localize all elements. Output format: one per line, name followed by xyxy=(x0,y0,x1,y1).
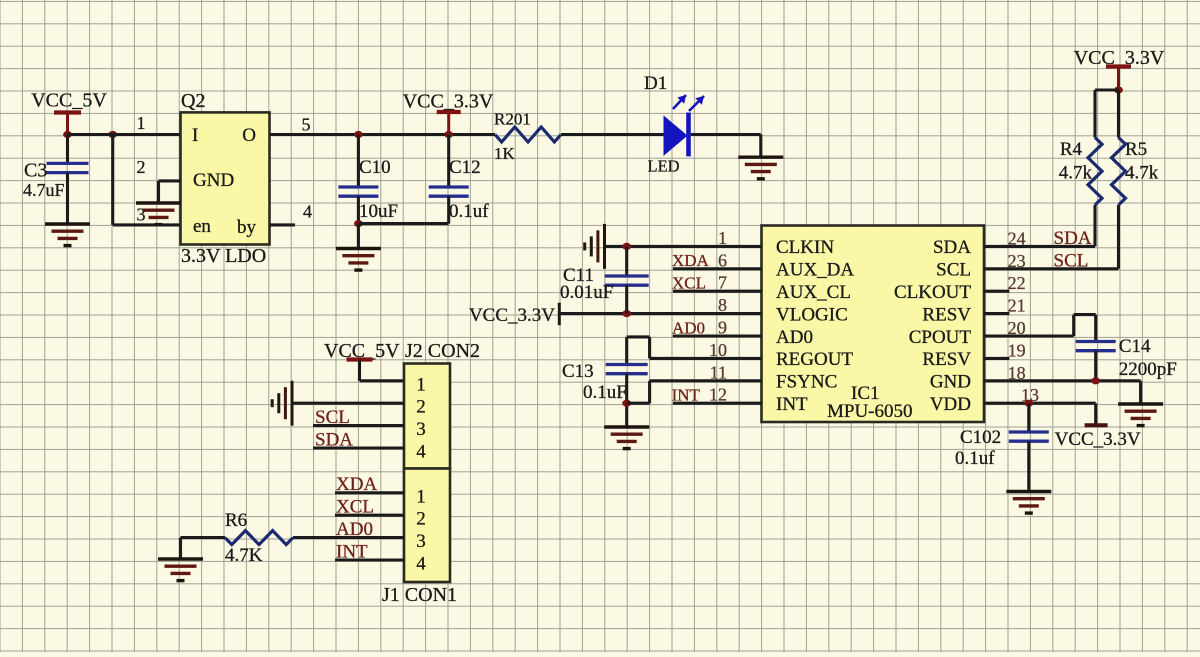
svg-text:22: 22 xyxy=(1008,273,1026,293)
svg-text:RESV: RESV xyxy=(922,304,971,325)
svg-text:J2 CON2: J2 CON2 xyxy=(405,340,480,362)
svg-text:INT: INT xyxy=(336,542,368,563)
svg-text:21: 21 xyxy=(1008,296,1026,316)
svg-text:4.7K: 4.7K xyxy=(225,545,263,566)
svg-text:4: 4 xyxy=(303,202,312,222)
svg-text:Q2: Q2 xyxy=(181,90,205,112)
svg-text:3: 3 xyxy=(416,419,426,440)
svg-text:CPOUT: CPOUT xyxy=(909,327,972,348)
svg-text:C13: C13 xyxy=(562,361,594,382)
svg-text:0.1uf: 0.1uf xyxy=(955,448,995,469)
svg-text:1: 1 xyxy=(137,113,146,133)
svg-text:4: 4 xyxy=(416,442,426,463)
svg-text:10uF: 10uF xyxy=(359,201,398,222)
svg-text:AUX_CL: AUX_CL xyxy=(776,282,851,303)
svg-text:XDA: XDA xyxy=(672,251,710,270)
svg-text:INT: INT xyxy=(672,386,701,405)
svg-text:GND: GND xyxy=(930,372,971,393)
svg-text:XDA: XDA xyxy=(336,474,377,495)
svg-text:0.1uF: 0.1uF xyxy=(583,382,627,403)
svg-text:VCC_5V: VCC_5V xyxy=(31,90,107,112)
svg-text:VCC_3.3V: VCC_3.3V xyxy=(469,305,555,326)
svg-text:O: O xyxy=(242,125,256,146)
svg-text:SDA: SDA xyxy=(933,237,971,258)
svg-text:I: I xyxy=(192,125,198,146)
svg-text:XCL: XCL xyxy=(672,274,706,293)
svg-text:SCL: SCL xyxy=(315,407,350,428)
svg-text:C102: C102 xyxy=(960,427,1001,448)
svg-text:VLOGIC: VLOGIC xyxy=(776,304,848,325)
svg-text:4: 4 xyxy=(416,554,426,575)
svg-text:4.7k: 4.7k xyxy=(1125,163,1159,184)
svg-text:INT: INT xyxy=(776,394,808,415)
svg-text:VDD: VDD xyxy=(930,394,971,415)
svg-text:4.7k: 4.7k xyxy=(1059,163,1093,184)
svg-text:2: 2 xyxy=(137,157,146,177)
svg-text:R6: R6 xyxy=(225,510,247,531)
svg-text:CLKOUT: CLKOUT xyxy=(894,282,971,303)
svg-text:4.7uF: 4.7uF xyxy=(23,180,65,200)
svg-text:1: 1 xyxy=(416,486,426,507)
svg-text:AUX_DA: AUX_DA xyxy=(776,260,854,281)
svg-text:GND: GND xyxy=(193,170,234,191)
svg-text:FSYNC: FSYNC xyxy=(776,372,837,393)
svg-text:AD0: AD0 xyxy=(672,319,705,338)
svg-text:C12: C12 xyxy=(449,157,481,178)
svg-text:CLKIN: CLKIN xyxy=(776,237,834,258)
svg-text:1: 1 xyxy=(416,374,426,395)
svg-text:en: en xyxy=(193,216,211,237)
svg-text:0.1uf: 0.1uf xyxy=(449,201,489,222)
svg-text:by: by xyxy=(237,217,257,238)
svg-text:AD0: AD0 xyxy=(776,327,813,348)
svg-text:2: 2 xyxy=(416,397,426,418)
svg-text:J1 CON1: J1 CON1 xyxy=(382,584,457,606)
svg-text:0.01uF: 0.01uF xyxy=(560,282,613,303)
svg-text:3: 3 xyxy=(137,205,146,225)
svg-text:VCC_3.3V: VCC_3.3V xyxy=(1055,429,1141,450)
svg-text:2: 2 xyxy=(416,509,426,530)
svg-text:19: 19 xyxy=(1008,340,1026,360)
svg-text:R5: R5 xyxy=(1125,139,1147,160)
svg-text:AD0: AD0 xyxy=(336,519,373,540)
svg-text:VCC_3.3V: VCC_3.3V xyxy=(403,91,494,113)
svg-text:C10: C10 xyxy=(359,157,391,178)
svg-text:REGOUT: REGOUT xyxy=(776,349,853,370)
svg-text:R201: R201 xyxy=(494,110,531,129)
svg-text:D1: D1 xyxy=(644,73,667,94)
svg-text:SDA: SDA xyxy=(1054,228,1092,249)
svg-text:RESV: RESV xyxy=(922,349,971,370)
svg-text:R4: R4 xyxy=(1060,139,1083,160)
svg-text:SCL: SCL xyxy=(1054,251,1089,272)
svg-text:SCL: SCL xyxy=(936,260,971,281)
svg-text:XCL: XCL xyxy=(336,497,374,518)
svg-text:LED: LED xyxy=(648,157,680,176)
svg-text:C3: C3 xyxy=(24,160,47,182)
svg-text:MPU-6050: MPU-6050 xyxy=(827,401,913,422)
svg-text:1K: 1K xyxy=(494,144,516,163)
svg-text:C14: C14 xyxy=(1119,336,1151,357)
svg-text:2200pF: 2200pF xyxy=(1119,359,1177,380)
svg-text:3.3V LDO: 3.3V LDO xyxy=(181,245,266,267)
svg-text:5: 5 xyxy=(302,115,311,135)
svg-text:3: 3 xyxy=(416,531,426,552)
svg-text:SDA: SDA xyxy=(315,430,353,451)
